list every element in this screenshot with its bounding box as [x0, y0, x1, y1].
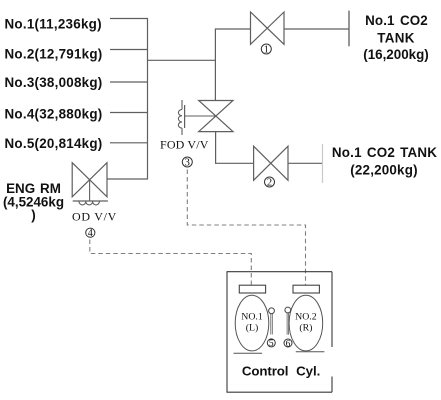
label No.1 CO2 TANK (16,200kg)	[363, 13, 429, 62]
ENG RM valve (OD V/V)	[72, 163, 107, 197]
right pilot cylinder cap	[293, 285, 319, 293]
svg-text:TANK: TANK	[377, 30, 414, 45]
label ENG RM (4,5246kg)	[3, 181, 64, 223]
wire line from No.5 label to manifold bus	[110, 142, 148, 144]
svg-text:5: 5	[269, 339, 274, 349]
valve 2 (to No.1 CO2 tank lower)	[254, 146, 288, 180]
wire line from No.3 label to manifold bus	[110, 81, 148, 83]
svg-text:1: 1	[264, 45, 269, 56]
FOD valve (vertical bowtie)	[199, 101, 233, 132]
right lever handle	[285, 307, 291, 335]
right cylinder base underline	[296, 351, 325, 353]
wire from ENG RM valve to bus	[107, 178, 148, 180]
control cylinder box	[227, 272, 332, 393]
svg-text:No.1(11,236kg): No.1(11,236kg)	[5, 17, 102, 32]
svg-text:2: 2	[267, 178, 272, 189]
circled number 2	[265, 177, 275, 189]
dashed control line from 3 to control cylinder right cap	[187, 170, 305, 286]
right pilot cylinder body NO.2 (R)	[289, 295, 323, 351]
svg-text:): )	[31, 208, 35, 223]
tank 2 flange bar (faint)	[322, 144, 324, 183]
solenoid coil of FOD valve	[178, 100, 215, 135]
svg-text:3: 3	[185, 158, 190, 169]
solenoid coil of OD valve	[73, 180, 108, 205]
left lever handle	[269, 308, 275, 335]
svg-text:No.4(32,880kg): No.4(32,880kg)	[5, 107, 103, 122]
svg-text:FOD V/V: FOD V/V	[160, 138, 209, 152]
svg-text:No.5(20,814kg): No.5(20,814kg)	[5, 136, 103, 151]
wire line from No.2 label to manifold bus	[110, 49, 148, 51]
svg-text:(L): (L)	[246, 323, 259, 334]
valve 1 (to No.1 CO2 tank upper)	[251, 12, 285, 44]
wire branch from bus to riser	[148, 59, 216, 61]
wire from FOD valve down then right to valve 2	[216, 132, 254, 164]
dashed control line from 4 to control cylinder left cap	[90, 240, 252, 286]
wire line from No.1 label to manifold bus	[110, 18, 148, 20]
left cylinder base underline	[234, 352, 263, 354]
left pilot cylinder body NO.1 (L)	[235, 295, 269, 351]
svg-text:No.3(38,008kg): No.3(38,008kg)	[5, 75, 103, 90]
label NO.1 (L)	[241, 312, 263, 334]
svg-text:No.1 CO2: No.1 CO2	[365, 13, 428, 28]
circled number 1	[261, 44, 271, 56]
circled number 5	[267, 339, 275, 349]
svg-text:NO.2: NO.2	[295, 312, 317, 323]
wire from valve 1 to tank flange	[284, 28, 349, 30]
wire riser to valve 1 line and down to FOD valve	[215, 29, 250, 101]
tank 1 flange bar	[348, 11, 350, 47]
svg-text:4: 4	[88, 228, 93, 239]
svg-text:No.2(12,791kg): No.2(12,791kg)	[5, 47, 103, 62]
circled number 4	[86, 228, 95, 239]
svg-text:OD V/V: OD V/V	[72, 210, 117, 224]
wire line from No.4 label to manifold bus	[110, 112, 148, 114]
circled number 3	[182, 157, 192, 169]
wire from valve 2 to tank 2 flange	[288, 162, 323, 164]
svg-text:(R): (R)	[299, 323, 312, 334]
svg-text:NO.1: NO.1	[241, 312, 263, 323]
svg-text:No.1 CO2 TANK: No.1 CO2 TANK	[332, 145, 437, 160]
circled number 6	[284, 339, 292, 349]
svg-text:6: 6	[286, 339, 291, 349]
svg-text:Control Cyl.: Control Cyl.	[242, 364, 320, 379]
wire vertical manifold bus	[147, 19, 149, 180]
left pilot cylinder cap	[239, 285, 265, 293]
svg-text:(16,200kg): (16,200kg)	[363, 47, 429, 62]
svg-text:(22,200kg): (22,200kg)	[350, 162, 418, 177]
label NO.2 (R)	[295, 312, 317, 334]
label No.1 CO2 TANK (22,200kg)	[332, 145, 437, 177]
